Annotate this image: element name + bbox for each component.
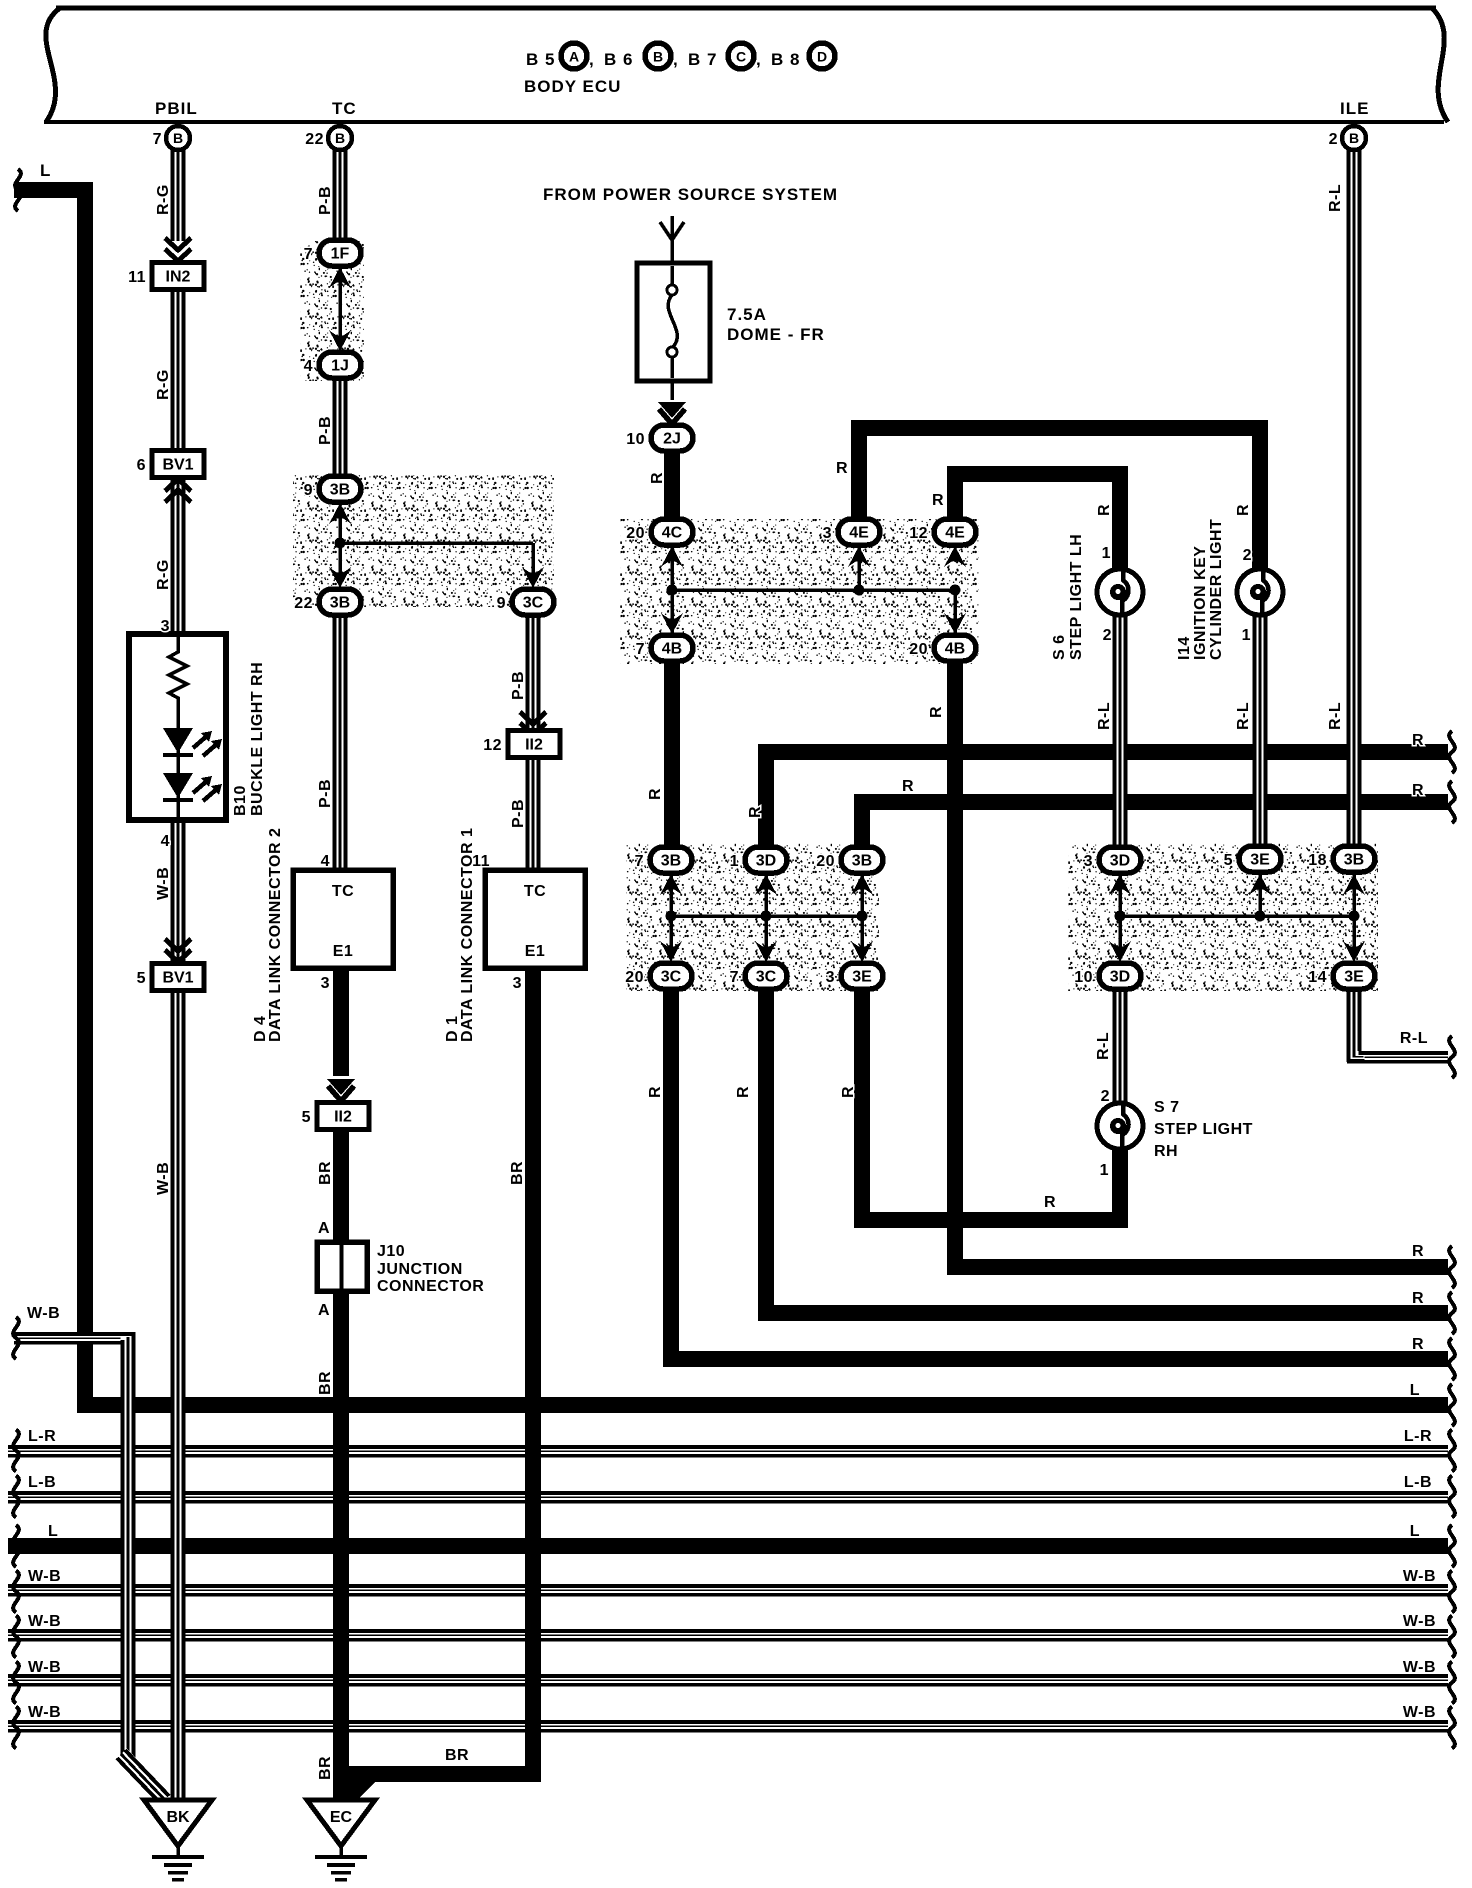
svg-text:5: 5 bbox=[302, 1109, 311, 1126]
wire segment down to 4E(3) bbox=[851, 420, 867, 521]
svg-text:7: 7 bbox=[153, 131, 162, 148]
shield stipple 3B-3C junction block bbox=[293, 475, 554, 607]
svg-text:7: 7 bbox=[730, 969, 739, 986]
svg-text:2: 2 bbox=[1101, 1088, 1110, 1105]
break right edge row bbox=[1449, 1662, 1455, 1704]
connector 3E pin 5 bbox=[1224, 846, 1281, 872]
svg-text:P-B: P-B bbox=[317, 416, 334, 445]
break right edge row bbox=[1449, 1430, 1455, 1472]
data link connector box D4 bbox=[293, 870, 393, 968]
svg-text:R: R bbox=[747, 806, 764, 818]
svg-text:E1: E1 bbox=[525, 943, 546, 960]
wire P-B from body ECU TC(22B) down to 1F bbox=[333, 150, 348, 244]
svg-text:W-B: W-B bbox=[1403, 1704, 1436, 1721]
arrow into II2(5) bbox=[327, 1079, 355, 1101]
junction wiring lower right 3D/3E/3B to 3D/3E bbox=[1109, 874, 1365, 962]
break right edge row bbox=[1449, 1384, 1455, 1426]
shield stipple 3B-3C lower left block bbox=[626, 843, 879, 991]
svg-text:BV1: BV1 bbox=[162, 970, 193, 987]
wire R from 3E(3) to step light S7 pin 1 bbox=[854, 1212, 1128, 1228]
wire W-B from BV1(5) to ground BK bbox=[171, 990, 186, 1802]
wire W-B from left edge bbox=[14, 1332, 136, 1345]
wire W-B full-width row 4 bbox=[8, 1720, 1448, 1733]
connector 3D pin 10 bbox=[1074, 963, 1141, 989]
svg-text:4: 4 bbox=[321, 853, 330, 870]
wire P-B from II2(12) to data link connector 1 pin 11 bbox=[526, 758, 541, 872]
break right edge row bbox=[1449, 1707, 1455, 1749]
svg-text:R: R bbox=[1412, 782, 1424, 799]
svg-text:4C: 4C bbox=[662, 525, 683, 542]
svg-text:ILE: ILE bbox=[1340, 99, 1369, 118]
svg-text:,: , bbox=[756, 50, 762, 69]
wire R-L corner bend bbox=[1347, 1051, 1365, 1062]
break right edge row bbox=[1449, 1616, 1455, 1658]
wire W-B corner bend bbox=[121, 1332, 136, 1358]
junction wiring 4C/4E/4B block bbox=[661, 545, 966, 636]
break left edge row bbox=[13, 1571, 19, 1613]
connector 3C pin 9 bbox=[497, 589, 554, 615]
svg-text:W-B: W-B bbox=[28, 1659, 61, 1676]
connector 3C pin 7 bbox=[730, 963, 787, 989]
wire segment below 3E(3) bbox=[854, 988, 870, 1228]
svg-text:L: L bbox=[40, 161, 51, 180]
svg-text:4B: 4B bbox=[945, 641, 965, 658]
svg-text:20: 20 bbox=[626, 525, 645, 542]
svg-text:3C: 3C bbox=[661, 969, 682, 986]
connector 2J pin 10 bbox=[626, 425, 693, 451]
svg-text:BODY ECU: BODY ECU bbox=[524, 77, 621, 96]
break W-B wire left edge bbox=[13, 1317, 19, 1359]
svg-text:4E: 4E bbox=[945, 525, 965, 542]
svg-text:P-B: P-B bbox=[317, 779, 334, 808]
svg-text:,: , bbox=[589, 50, 595, 69]
wire W-B full-width row 1 bbox=[8, 1584, 1448, 1597]
svg-text:18: 18 bbox=[1308, 852, 1327, 869]
svg-text:PBIL: PBIL bbox=[155, 99, 198, 118]
svg-text:1F: 1F bbox=[331, 246, 350, 263]
svg-text:3E: 3E bbox=[852, 969, 872, 986]
break right edge row bbox=[1449, 1246, 1455, 1288]
arrow into II2(12) bbox=[520, 712, 546, 735]
wire R row 1 to right edge bbox=[947, 1259, 1448, 1275]
fuse 7.5A DOME-FR bbox=[637, 263, 710, 381]
wire R-L from 3D(10) to step light S7 pin 2 bbox=[1113, 988, 1128, 1105]
svg-text:STEP LIGHT: STEP LIGHT bbox=[1154, 1121, 1253, 1138]
connector 3E pin 14 bbox=[1308, 963, 1375, 989]
step light LH S6 bulb bbox=[1097, 567, 1143, 617]
connector BV1 pin 6 bbox=[137, 451, 204, 478]
svg-text:R-L: R-L bbox=[1327, 184, 1344, 212]
svg-text:P-B: P-B bbox=[317, 186, 334, 215]
svg-text:R: R bbox=[1412, 1243, 1424, 1260]
break right edge row bbox=[1449, 1476, 1455, 1518]
svg-text:3B: 3B bbox=[1344, 852, 1364, 869]
svg-text:R: R bbox=[836, 460, 848, 477]
break left edge row bbox=[13, 1662, 19, 1704]
connector 4E pin 12 bbox=[909, 519, 976, 545]
svg-text:3C: 3C bbox=[523, 595, 544, 612]
label B5(A) B6(B) B7(C) B8(D) bbox=[526, 43, 835, 69]
svg-text:R: R bbox=[928, 706, 945, 718]
wire BR from D4 pin 3 to II2(5) bbox=[333, 966, 349, 1076]
ground BK bbox=[144, 1800, 212, 1882]
svg-text:FROM POWER SOURCE SYSTEM: FROM POWER SOURCE SYSTEM bbox=[543, 185, 838, 204]
svg-text:4: 4 bbox=[304, 358, 313, 375]
connector 1J pin 4 bbox=[304, 352, 361, 378]
svg-text:,: , bbox=[673, 50, 679, 69]
svg-text:B: B bbox=[335, 130, 345, 146]
break right edge row bbox=[1449, 1338, 1455, 1380]
connector 3E pin 3 bbox=[826, 963, 883, 989]
connector B pin 22 (TC) bbox=[305, 126, 352, 150]
svg-text:L-B: L-B bbox=[1404, 1474, 1432, 1491]
svg-text:R-L: R-L bbox=[1400, 1030, 1428, 1047]
svg-text:W-B: W-B bbox=[27, 1305, 60, 1322]
svg-text:R: R bbox=[1096, 504, 1113, 516]
svg-text:TC: TC bbox=[332, 99, 357, 118]
svg-text:4B: 4B bbox=[662, 641, 682, 658]
svg-text:3D: 3D bbox=[756, 853, 776, 870]
svg-text:BR: BR bbox=[509, 1161, 526, 1185]
wire R row to right edge from 3D(1) bbox=[758, 744, 1448, 760]
svg-text:L-R: L-R bbox=[28, 1428, 56, 1445]
connector 3D pin 1 bbox=[730, 847, 787, 873]
svg-text:B: B bbox=[173, 130, 183, 146]
connector 3B pin 20 bbox=[816, 847, 883, 873]
svg-text:12: 12 bbox=[483, 737, 502, 754]
svg-text:S 7: S 7 bbox=[1154, 1099, 1180, 1116]
svg-text:A: A bbox=[318, 1220, 330, 1237]
junction wiring 3B(9) to 3B(22) and 3C(9) bbox=[329, 503, 544, 588]
svg-text:A: A bbox=[569, 49, 579, 65]
break left edge row bbox=[13, 1707, 19, 1749]
connector 3B pin 7 bbox=[635, 847, 692, 873]
data link connector box D1 bbox=[485, 870, 585, 968]
svg-text:TC: TC bbox=[332, 883, 354, 900]
svg-text:B 5: B 5 bbox=[526, 50, 555, 69]
svg-text:3: 3 bbox=[513, 975, 522, 992]
wire L from left edge bbox=[14, 182, 93, 198]
svg-text:R: R bbox=[647, 1086, 664, 1098]
arrow into BV1(5) bbox=[165, 939, 191, 962]
svg-text:22: 22 bbox=[294, 595, 313, 612]
svg-text:9: 9 bbox=[304, 482, 313, 499]
wire BR from data link connector 1 to ground EC bbox=[349, 1766, 541, 1782]
svg-text:2: 2 bbox=[1243, 547, 1252, 564]
wire P-B from 1J to 3B(9) bbox=[333, 377, 348, 478]
junction connector J10 bbox=[317, 1242, 367, 1291]
svg-text:3: 3 bbox=[161, 618, 170, 635]
svg-text:W-B: W-B bbox=[28, 1568, 61, 1585]
svg-text:B: B bbox=[1349, 130, 1359, 146]
svg-text:1: 1 bbox=[1242, 627, 1251, 644]
svg-text:W-B: W-B bbox=[1403, 1568, 1436, 1585]
svg-text:BR: BR bbox=[445, 1747, 469, 1764]
svg-text:22: 22 bbox=[305, 131, 324, 148]
svg-text:W-B: W-B bbox=[28, 1613, 61, 1630]
wire W-B full-width row 2 bbox=[8, 1629, 1448, 1642]
svg-text:10: 10 bbox=[626, 431, 645, 448]
svg-text:II2: II2 bbox=[334, 1109, 352, 1126]
svg-text:P-B: P-B bbox=[510, 671, 527, 700]
connector B pin 7 (PBIL) bbox=[153, 126, 190, 150]
svg-text:DOME - FR: DOME - FR bbox=[727, 325, 825, 344]
break L wire left edge bbox=[15, 169, 21, 211]
svg-text:E1: E1 bbox=[333, 943, 354, 960]
svg-text:R-G: R-G bbox=[155, 184, 172, 215]
svg-text:TC: TC bbox=[524, 883, 546, 900]
wire R from 4B(20) down bbox=[947, 660, 963, 1275]
arrow into BV1(6) bbox=[165, 479, 191, 502]
svg-text:C: C bbox=[736, 49, 746, 65]
svg-text:BV1: BV1 bbox=[162, 457, 193, 474]
wire segment below 3C(20) bbox=[663, 988, 679, 1367]
svg-text:R-L: R-L bbox=[1095, 1032, 1112, 1060]
connector 4E pin 3 bbox=[823, 519, 880, 545]
svg-text:3B: 3B bbox=[330, 595, 350, 612]
svg-text:12: 12 bbox=[909, 525, 928, 542]
wire R from 2J to 4C bbox=[664, 450, 680, 521]
arrow from power source system bbox=[660, 216, 684, 262]
wire W-B diagonal into ground BK bbox=[117, 1750, 169, 1804]
svg-text:20: 20 bbox=[816, 853, 835, 870]
svg-text:3E: 3E bbox=[1250, 852, 1270, 869]
wire L vertical down left side bbox=[77, 182, 93, 1413]
svg-text:3: 3 bbox=[826, 969, 835, 986]
svg-text:10: 10 bbox=[1074, 969, 1093, 986]
wire R-G from BV1 to buckle light B10 pin 3 bbox=[171, 477, 186, 636]
svg-text:3C: 3C bbox=[756, 969, 777, 986]
svg-text:D: D bbox=[817, 49, 827, 65]
wire R row to right edge from 3B(20) bbox=[854, 794, 1448, 810]
connector 4C pin 20 bbox=[626, 519, 693, 545]
svg-text:R: R bbox=[902, 778, 914, 795]
connector 3B pin 22 bbox=[294, 589, 361, 615]
svg-text:W-B: W-B bbox=[155, 867, 172, 900]
buckle light B10 (resistor and LEDs) bbox=[129, 634, 226, 822]
svg-text:3: 3 bbox=[1084, 853, 1093, 870]
svg-text:5: 5 bbox=[137, 970, 146, 987]
svg-text:B: B bbox=[653, 49, 663, 65]
wire R row 3 to right edge bbox=[663, 1351, 1448, 1367]
svg-text:5: 5 bbox=[1224, 852, 1233, 869]
svg-text:R: R bbox=[1412, 732, 1424, 749]
svg-text:R: R bbox=[647, 788, 664, 800]
wire R from connector 4E(3) to ignition key cylinder light I14 bbox=[851, 420, 1268, 436]
break left edge row bbox=[13, 1430, 19, 1472]
svg-text:3D: 3D bbox=[1110, 969, 1130, 986]
svg-text:4E: 4E bbox=[849, 525, 869, 542]
svg-text:II2: II2 bbox=[525, 737, 543, 754]
svg-text:3: 3 bbox=[823, 525, 832, 542]
svg-text:R: R bbox=[1412, 1290, 1424, 1307]
wire R-G from body ECU PBIL(7B) down bbox=[171, 150, 186, 241]
svg-text:A: A bbox=[318, 1302, 330, 1319]
svg-text:R-L: R-L bbox=[1327, 702, 1344, 730]
svg-text:1: 1 bbox=[1102, 545, 1111, 562]
wire R-G from IN2 to BV1(6) bbox=[171, 289, 186, 455]
shield stipple 3D-3E lower right block bbox=[1068, 843, 1378, 991]
wire R row 2 to right edge bbox=[758, 1305, 1448, 1321]
svg-text:R-L: R-L bbox=[1096, 702, 1113, 730]
connector 3B pin 9 bbox=[304, 476, 361, 502]
wire BR vertical from II2(5) through J10 to ground EC bbox=[333, 1131, 349, 1802]
svg-text:R: R bbox=[649, 472, 666, 484]
wire R from connector 4E(12) to step light S6 bbox=[947, 466, 1128, 482]
wire R from 4B(7) to 3B(7) bbox=[664, 660, 680, 849]
break right edge row bbox=[1449, 731, 1455, 773]
break left edge row bbox=[13, 1476, 19, 1518]
svg-text:RH: RH bbox=[1154, 1143, 1178, 1160]
break left edge row bbox=[13, 1525, 19, 1567]
svg-text:L: L bbox=[48, 1523, 58, 1540]
svg-text:L-R: L-R bbox=[1404, 1428, 1432, 1445]
wire BR vertical from D1 pin 3 bbox=[525, 966, 541, 1772]
svg-text:7: 7 bbox=[635, 853, 644, 870]
svg-text:11: 11 bbox=[128, 269, 146, 286]
svg-text:JUNCTION: JUNCTION bbox=[377, 1261, 463, 1278]
svg-text:9: 9 bbox=[497, 595, 506, 612]
wire W-B full-width row 3 bbox=[8, 1674, 1448, 1687]
wire L-B full-width row bbox=[8, 1491, 1448, 1504]
svg-text:BR: BR bbox=[317, 1371, 334, 1395]
connector IN2 pin 11 bbox=[128, 263, 204, 290]
ignition key cylinder light I14 bulb bbox=[1237, 567, 1283, 617]
wire P-B from 3B(22) to data link connector 2 pin 4 bbox=[333, 613, 348, 872]
svg-text:1J: 1J bbox=[331, 358, 349, 375]
svg-text:L: L bbox=[1410, 1523, 1420, 1540]
arrow into 2J bbox=[670, 381, 674, 400]
svg-text:B 7: B 7 bbox=[688, 50, 717, 69]
svg-text:R: R bbox=[735, 1086, 752, 1098]
svg-text:7: 7 bbox=[636, 641, 645, 658]
break right edge row bbox=[1449, 1292, 1455, 1334]
svg-text:20: 20 bbox=[625, 969, 644, 986]
svg-text:W-B: W-B bbox=[1403, 1659, 1436, 1676]
body ECU band bbox=[40, 8, 1448, 122]
wire W-B vertical to ground BK bbox=[121, 1332, 136, 1758]
svg-text:14: 14 bbox=[1308, 969, 1327, 986]
wire R-L to right edge bbox=[1347, 1051, 1448, 1064]
step light RH S7 bulb bbox=[1097, 1101, 1143, 1151]
svg-text:2: 2 bbox=[1329, 131, 1338, 148]
wire BR corner fillet into EC bbox=[349, 1780, 377, 1808]
wire L full-width row bbox=[8, 1538, 1448, 1554]
svg-text:W-B: W-B bbox=[28, 1704, 61, 1721]
connector 1F pin 7 bbox=[304, 240, 361, 266]
break right edge row bbox=[1449, 1036, 1455, 1078]
wire R-L from body ECU ILE(2B) to 3B(18) bbox=[1347, 150, 1362, 849]
junction wiring lower left 3B/3D/3B to 3C/3C/3E bbox=[660, 874, 873, 962]
svg-text:L-B: L-B bbox=[28, 1474, 56, 1491]
svg-text:R: R bbox=[1412, 1336, 1424, 1353]
wire P-B from 3C(9) down to II2(12) bbox=[526, 613, 541, 735]
svg-text:R: R bbox=[932, 492, 944, 509]
retainer wire between 1F and 1J bbox=[329, 267, 351, 351]
svg-text:20: 20 bbox=[909, 641, 928, 658]
wire segment down to I14 pin 2 bbox=[1252, 420, 1268, 570]
svg-text:7: 7 bbox=[304, 246, 313, 263]
wire L row 4 to right edge bbox=[77, 1397, 1448, 1413]
svg-text:R-G: R-G bbox=[155, 559, 172, 590]
wire L-R full-width row bbox=[8, 1445, 1448, 1458]
wire segment down to 3B(20) bbox=[854, 794, 870, 849]
wire segment down to S6 pin 1 bbox=[1112, 466, 1128, 570]
svg-text:BR: BR bbox=[317, 1161, 334, 1185]
wire R-L from S6 pin 2 to 3D(3) bbox=[1113, 614, 1128, 849]
arrow into IN2 bbox=[165, 238, 191, 261]
svg-text:4: 4 bbox=[161, 833, 170, 850]
svg-text:L: L bbox=[1410, 1382, 1420, 1399]
svg-text:B 6: B 6 bbox=[604, 50, 633, 69]
svg-text:R: R bbox=[1044, 1194, 1056, 1211]
connector 3B pin 18 bbox=[1308, 846, 1375, 872]
svg-text:IN2: IN2 bbox=[166, 269, 191, 286]
svg-text:EC: EC bbox=[330, 1809, 353, 1826]
svg-text:3B: 3B bbox=[852, 853, 872, 870]
ground EC bbox=[307, 1800, 375, 1882]
svg-text:7.5A: 7.5A bbox=[727, 305, 767, 324]
svg-text:R-L: R-L bbox=[1235, 702, 1252, 730]
shield stipple 4C-4B junction block bbox=[620, 519, 979, 664]
svg-text:R: R bbox=[840, 1086, 857, 1098]
wire R-L from I14 pin 1 to 3E(5) bbox=[1253, 614, 1268, 849]
wire W-B from B10 pin 4 to BV1(5) bbox=[171, 818, 186, 968]
connector B pin 2 (ILE) bbox=[1329, 126, 1366, 150]
connector 4B pin 7 bbox=[636, 635, 693, 661]
svg-text:3B: 3B bbox=[330, 482, 350, 499]
svg-text:R-G: R-G bbox=[155, 369, 172, 400]
wire segment below 3C(7) bbox=[758, 988, 774, 1321]
svg-text:6: 6 bbox=[137, 457, 146, 474]
wire segment down to 4E(12) bbox=[947, 466, 963, 521]
svg-text:P-B: P-B bbox=[510, 799, 527, 828]
svg-text:W-B: W-B bbox=[155, 1162, 172, 1195]
svg-text:R: R bbox=[1235, 504, 1252, 516]
svg-text:W-B: W-B bbox=[1403, 1613, 1436, 1630]
svg-text:3D: 3D bbox=[1110, 853, 1130, 870]
connector II2 pin 5 bbox=[302, 1103, 369, 1130]
svg-text:B 8: B 8 bbox=[771, 50, 800, 69]
svg-text:3: 3 bbox=[321, 975, 330, 992]
break right edge row bbox=[1449, 1571, 1455, 1613]
break right edge row bbox=[1449, 781, 1455, 823]
svg-text:BR: BR bbox=[317, 1756, 334, 1780]
wire segment down to 3D(1) bbox=[758, 744, 774, 849]
svg-text:2J: 2J bbox=[663, 431, 681, 448]
connector 3D pin 3 bbox=[1084, 847, 1141, 873]
connector II2 pin 12 bbox=[483, 731, 560, 758]
shield stipple 1F-1J bbox=[300, 241, 364, 381]
svg-text:J10: J10 bbox=[377, 1243, 405, 1260]
wire R-L below 3E(14) bbox=[1347, 988, 1362, 1062]
break right edge row bbox=[1449, 1525, 1455, 1567]
connector 4B pin 20 bbox=[909, 635, 976, 661]
svg-text:2: 2 bbox=[1103, 627, 1112, 644]
connector 3C pin 20 bbox=[625, 963, 692, 989]
svg-text:BK: BK bbox=[166, 1809, 190, 1826]
svg-text:1: 1 bbox=[730, 853, 739, 870]
svg-text:CONNECTOR: CONNECTOR bbox=[377, 1278, 484, 1295]
step light S7 lower stem bbox=[1112, 1146, 1128, 1228]
svg-text:3E: 3E bbox=[1344, 969, 1364, 986]
connector BV1 pin 5 bbox=[137, 964, 204, 991]
break left edge row bbox=[13, 1616, 19, 1658]
svg-text:1: 1 bbox=[1100, 1162, 1109, 1179]
svg-text:3B: 3B bbox=[661, 853, 681, 870]
